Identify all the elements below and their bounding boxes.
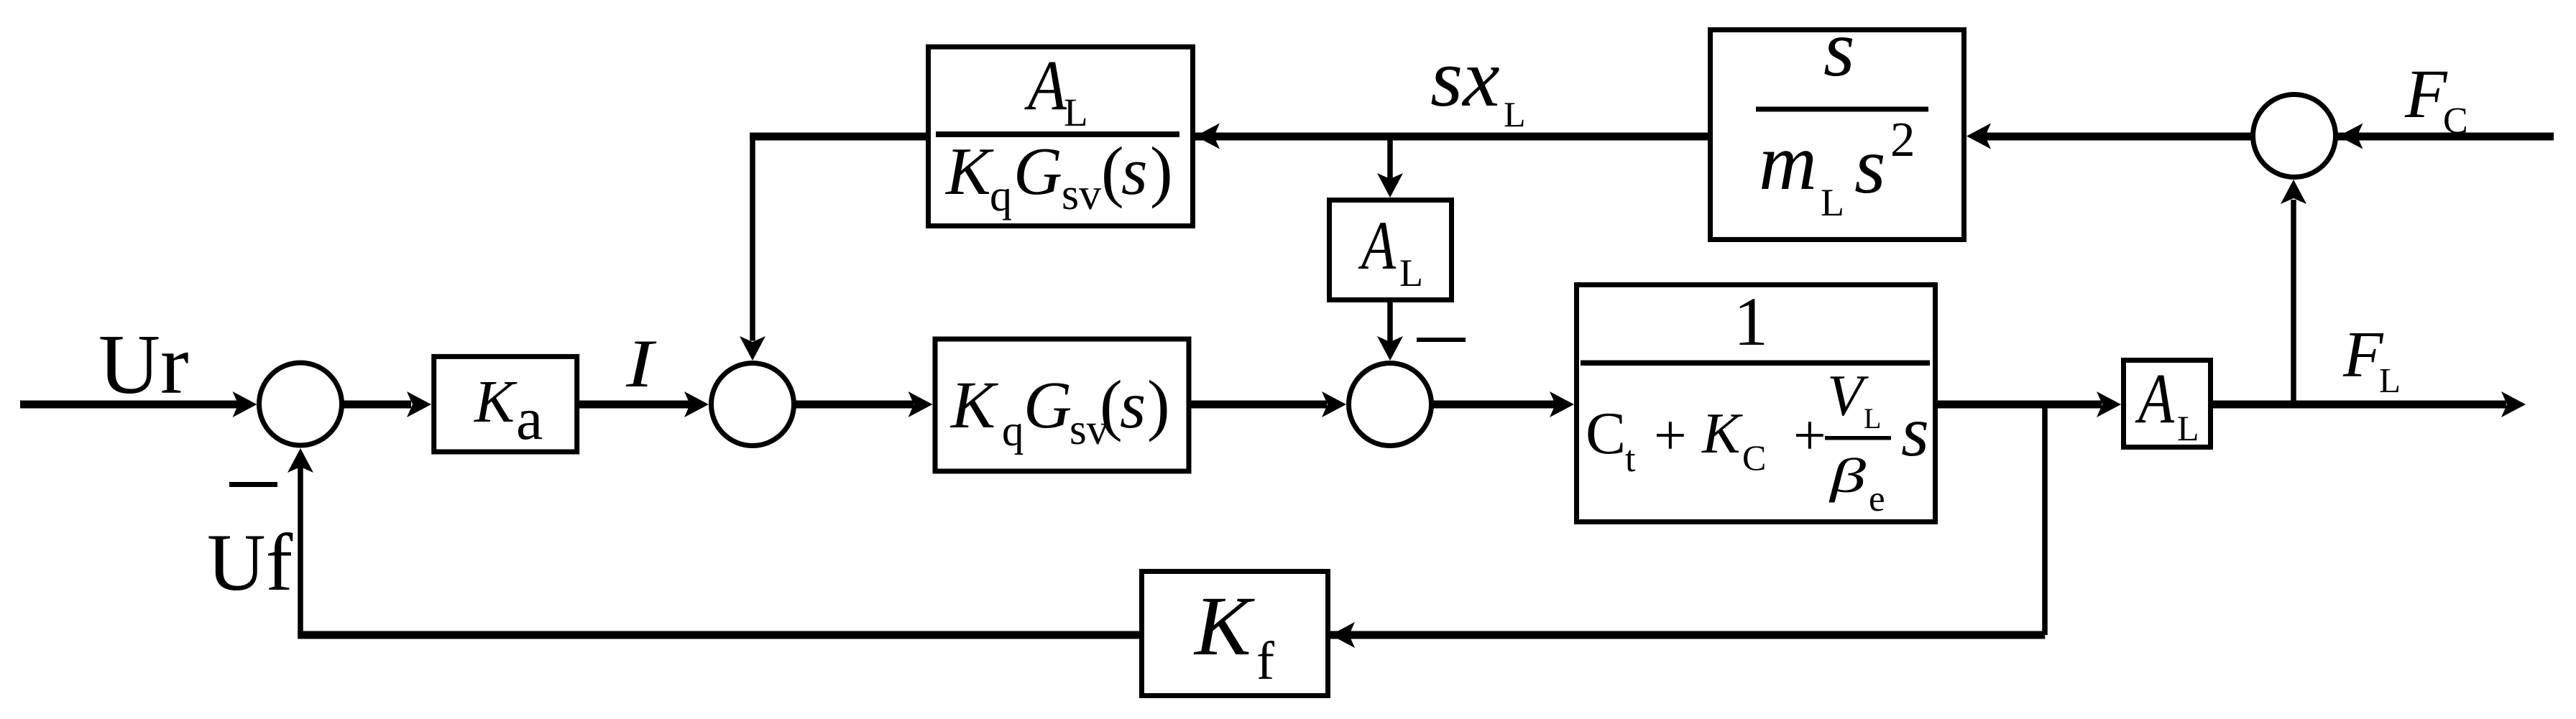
fraction bar in s/mLs2 block: [1756, 107, 1928, 112]
svg-text:+: +: [1654, 403, 1687, 468]
svg-text:Uf: Uf: [207, 518, 293, 608]
block 1/(Ct+KC+VL/be s): [1577, 285, 1936, 522]
svg-text:C: C: [1742, 437, 1766, 478]
summing junction 4: [2253, 95, 2336, 177]
svg-text:F: F: [2342, 318, 2384, 391]
svg-text:s: s: [1121, 134, 1148, 209]
fraction bar in big block: [1581, 361, 1930, 366]
svg-text:L: L: [2379, 361, 2401, 400]
svg-text:sv: sv: [1062, 170, 1101, 219]
label minus at summing junction 1: [229, 482, 277, 487]
arrowhead into summing junction 1: [233, 391, 257, 417]
svg-text:): ): [1147, 366, 1170, 442]
arrowhead into big block: [1550, 391, 1574, 417]
wire summing junction 2 to KqGsv block: [795, 401, 914, 409]
block AL right: [2124, 361, 2211, 447]
svg-text:s: s: [1823, 4, 1855, 93]
arrowhead into Kf block: [1330, 622, 1355, 648]
svg-text:L: L: [1821, 181, 1844, 224]
block AL small: [1330, 200, 1452, 300]
arrowhead into summing junction 2: [684, 391, 709, 417]
svg-text:A: A: [2135, 358, 2175, 438]
svg-text:G: G: [1023, 368, 1072, 442]
wire top line from s/mLs2 block to AL/KqGsv block: [1194, 133, 1708, 141]
wire junction drop from sxL node to AL small block: [1387, 136, 1393, 180]
svg-text:s: s: [1120, 368, 1146, 442]
arrowhead into summing junction 3: [1322, 391, 1346, 417]
svg-text:A: A: [1024, 45, 1067, 125]
wire big block to AL right block: [1936, 401, 2102, 409]
svg-text:K: K: [944, 134, 994, 209]
block KqGsv(s): [935, 339, 1189, 471]
svg-text:+: +: [1793, 403, 1826, 468]
arrowhead down into summing junction 2 from feedback: [740, 336, 765, 361]
block AL/KqGsv fraction: [929, 47, 1193, 226]
arrowhead into Ka: [407, 391, 431, 417]
svg-text:1: 1: [1734, 283, 1768, 360]
arrowhead up into summing junction 1 from Uf: [287, 448, 313, 473]
wire input Ur to summing junction 1: [20, 401, 243, 409]
svg-text:Ur: Ur: [98, 317, 189, 412]
svg-text:K: K: [1193, 579, 1255, 673]
svg-text:q: q: [1002, 407, 1024, 455]
svg-text:V: V: [1827, 363, 1869, 428]
wire summing junction 1 to Ka: [343, 401, 411, 409]
wire riser from bottom feedback up to summing junction 1: [298, 465, 303, 635]
label minus at summing junction 3: [1417, 338, 1466, 342]
svg-text:G: G: [1013, 134, 1062, 209]
summing junction 1: [259, 363, 342, 445]
svg-text:(: (: [1101, 133, 1124, 209]
svg-text:C: C: [2443, 101, 2468, 142]
svg-text:q: q: [990, 172, 1012, 221]
svg-text:C: C: [1586, 400, 1626, 467]
wire summing junction 3 to big block: [1432, 401, 1556, 409]
svg-text:a: a: [516, 386, 543, 453]
summing junction 2: [712, 363, 794, 446]
wire riser from FL line up to summing junction 4: [2291, 200, 2296, 408]
summing junction 3: [1349, 363, 1432, 446]
svg-text:L: L: [2177, 408, 2199, 448]
arrowhead into AL/KqGsv block: [1195, 124, 1220, 149]
wire bottom feedback line to Kf and to left riser: [298, 631, 2045, 639]
arrowhead output FL: [2501, 391, 2526, 417]
arrowhead up into summing junction 4: [2281, 180, 2306, 204]
svg-text:): ): [1150, 133, 1173, 209]
svg-text:m: m: [1759, 118, 1817, 207]
svg-text:(: (: [1100, 366, 1123, 442]
arrowhead into summing junction 4 from FC: [2339, 124, 2363, 149]
svg-text:K: K: [949, 368, 999, 442]
block Kf: [1142, 572, 1328, 696]
block s/mLs2: [1711, 30, 1964, 240]
svg-text:sx: sx: [1430, 32, 1500, 124]
svg-text:f: f: [1256, 631, 1274, 691]
svg-text:K: K: [474, 368, 517, 435]
svg-text:L: L: [1504, 94, 1526, 134]
arrowhead into AL right block: [2097, 391, 2121, 417]
svg-text:L: L: [1399, 251, 1423, 294]
svg-text:t: t: [1625, 439, 1636, 480]
svg-text:K: K: [1701, 402, 1743, 465]
svg-text:β: β: [1828, 448, 1866, 503]
wire junction after big block down to bottom feedback line: [2042, 404, 2048, 635]
wire feedback top: AL/KqGsv block output left then down to summing junction 2: [750, 133, 926, 141]
svg-text:s: s: [1854, 121, 1886, 210]
svg-text:A: A: [1358, 207, 1396, 284]
svg-text:e: e: [1869, 479, 1885, 519]
svg-text:s: s: [1901, 391, 1929, 471]
wire summing junction 4 to s/mLs2 block: [1985, 133, 2252, 141]
arrowhead down into summing junction 3: [1377, 336, 1403, 361]
wire FC input to summing junction 4: [2336, 133, 2554, 141]
arrowhead into s/mLs2 block: [1966, 124, 1991, 149]
svg-text:F: F: [2404, 55, 2448, 132]
wire AL small block to summing junction 3: [1387, 302, 1393, 342]
wire KqGsv block to summing junction 3: [1190, 401, 1327, 409]
arrowhead into KqGsv block: [908, 391, 933, 417]
block Ka: [434, 356, 577, 452]
wire AL right block to output FL: [2212, 401, 2506, 409]
svg-text:I: I: [625, 325, 657, 402]
arrowhead down into AL small block: [1377, 173, 1403, 198]
svg-text:L: L: [1064, 91, 1088, 134]
wire Ka to summing junction 2: [579, 401, 691, 409]
fraction bar in AL/KqGsv block: [936, 131, 1179, 137]
svg-text:L: L: [1864, 402, 1881, 435]
svg-text:2: 2: [1890, 112, 1915, 167]
